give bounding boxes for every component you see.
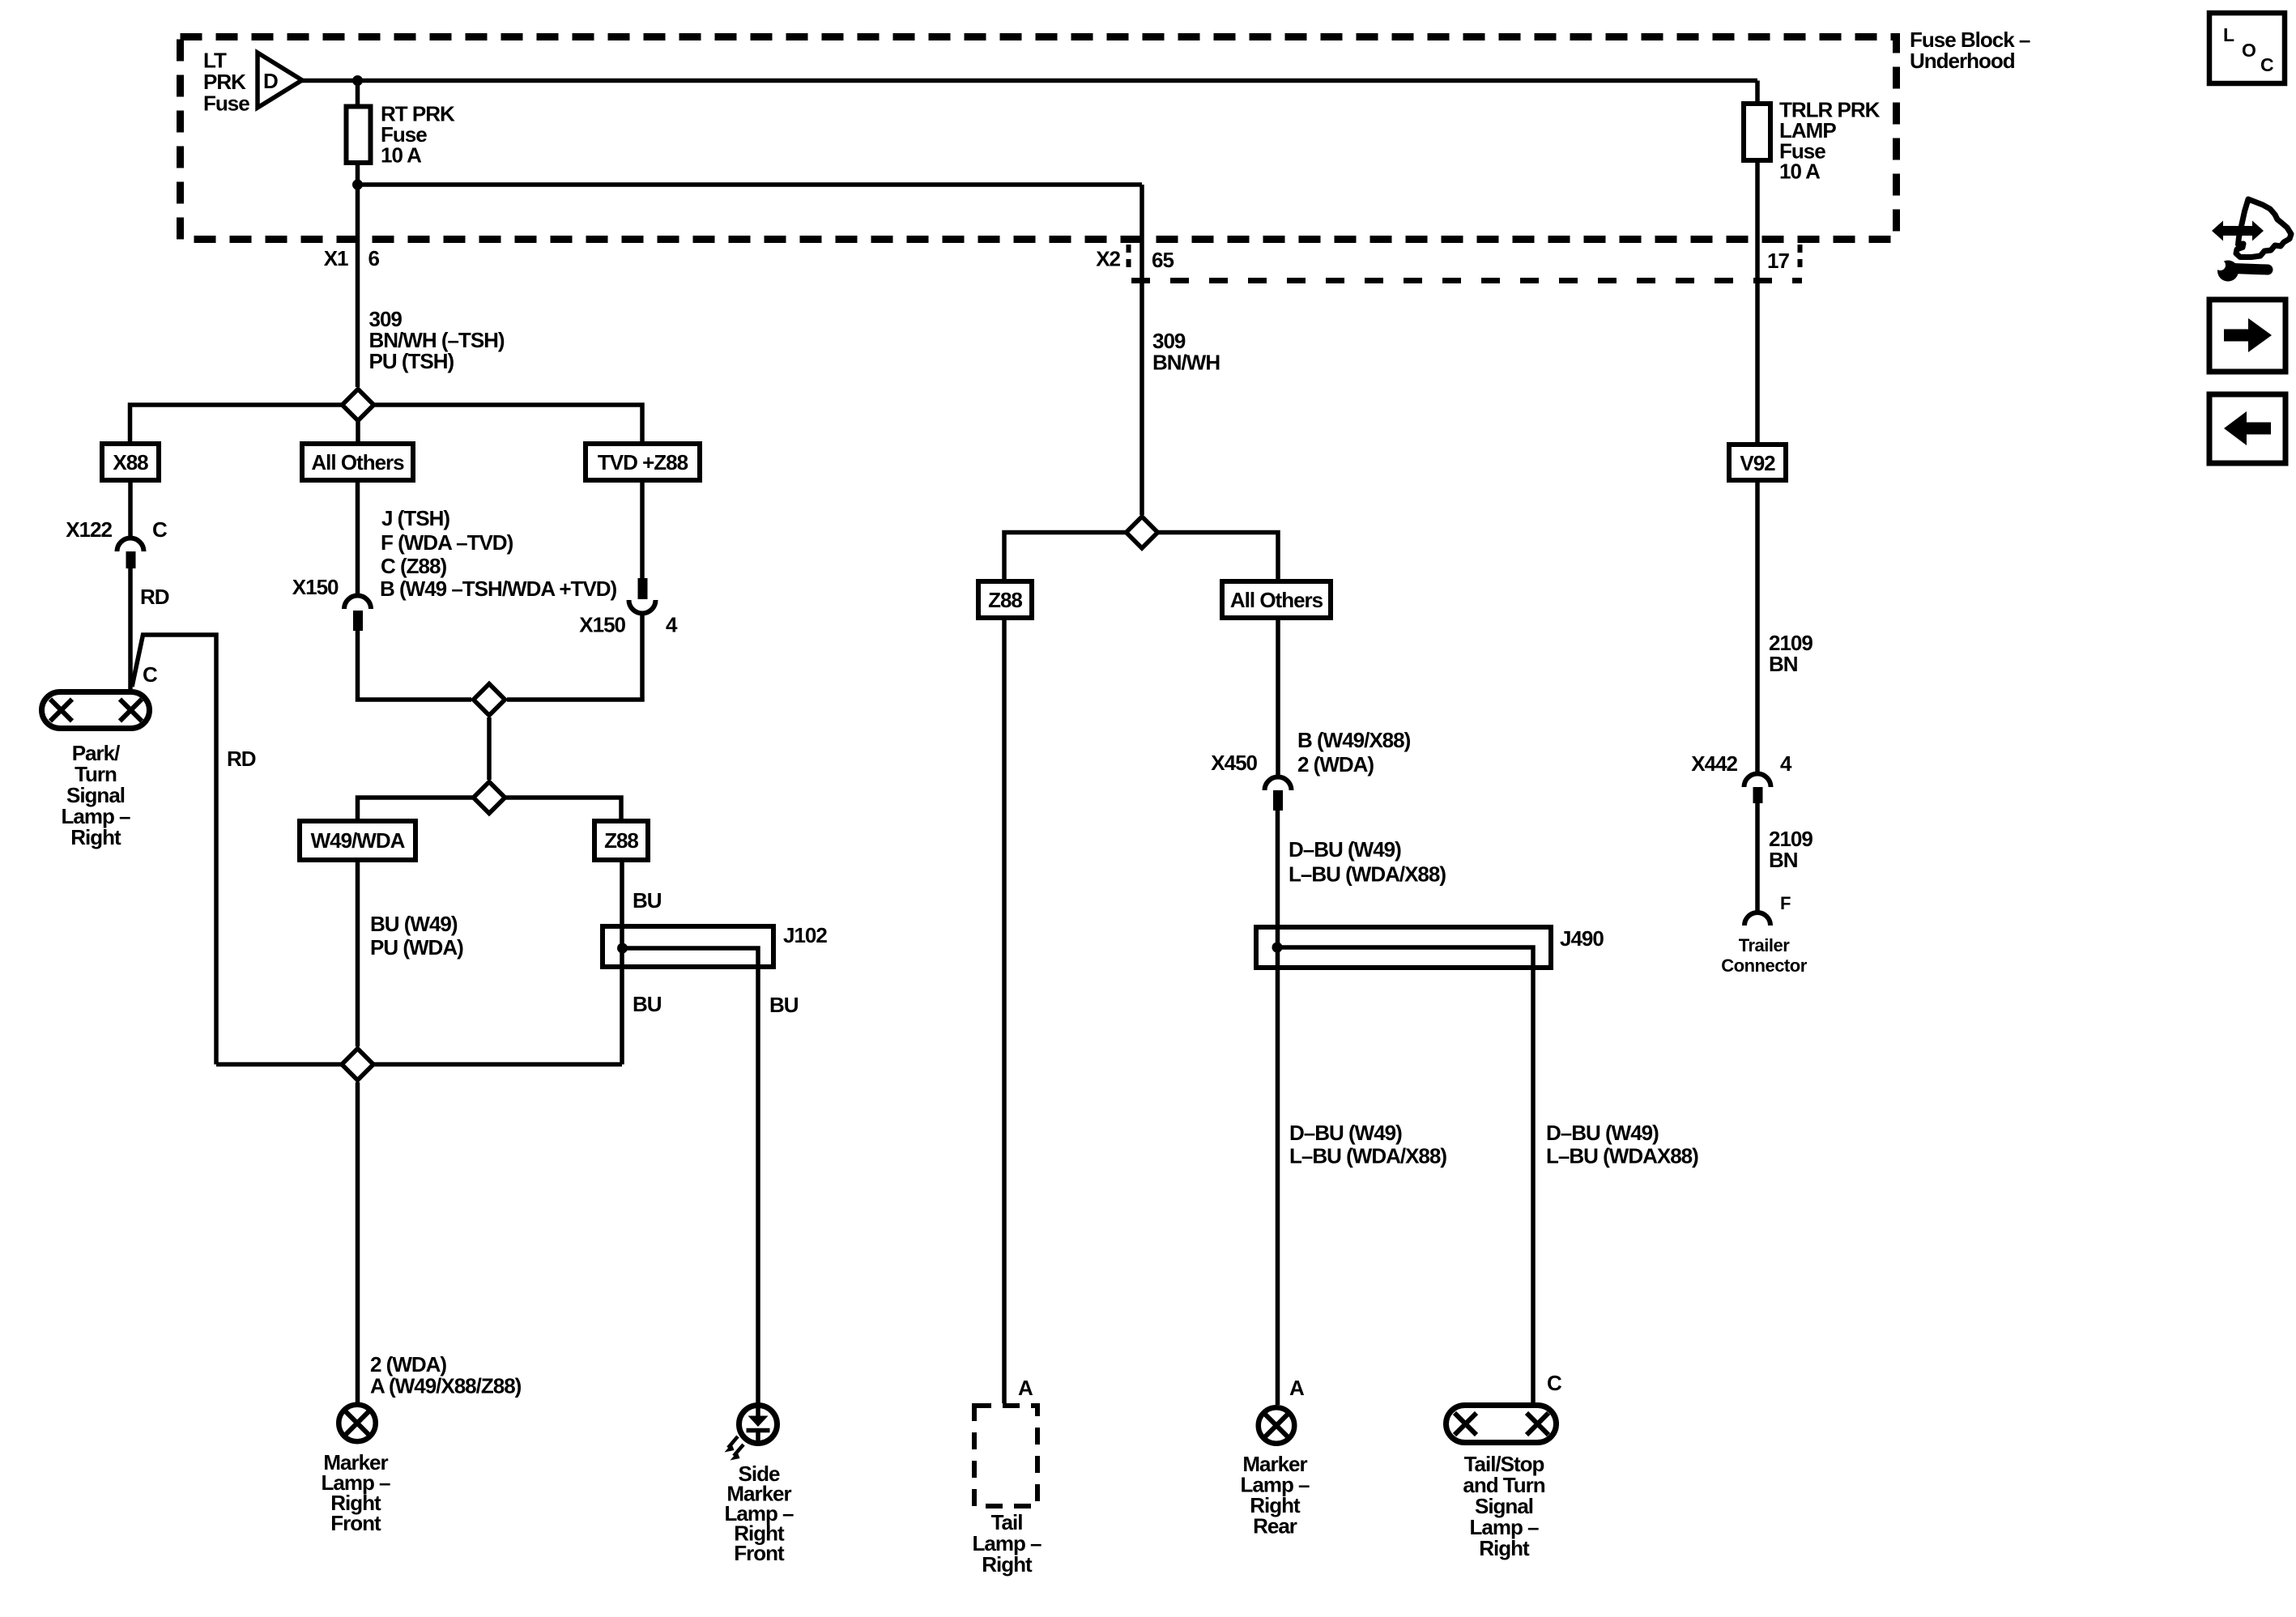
svg-text:BU: BU bbox=[633, 888, 662, 913]
svg-text:Z88: Z88 bbox=[604, 828, 638, 853]
svg-text:L–BU (WDA/X88): L–BU (WDA/X88) bbox=[1289, 862, 1446, 887]
wire bottom bus through splice diamond S4 bbox=[216, 1062, 622, 1067]
connector X2 dotted boundary line bbox=[1131, 278, 1802, 283]
svg-text:Underhood: Underhood bbox=[1910, 49, 2015, 73]
option box All Others bbox=[302, 444, 413, 480]
svg-text:A (W49/X88/Z88): A (W49/X88/Z88) bbox=[370, 1374, 522, 1398]
svg-text:2 (WDA): 2 (WDA) bbox=[370, 1352, 446, 1377]
svg-text:Trailer: Trailer bbox=[1739, 935, 1790, 955]
connector X122 arc bbox=[117, 538, 144, 552]
connector X122 pin bbox=[126, 551, 136, 568]
icon LOC box bbox=[2209, 13, 2285, 83]
svg-text:L–BU (WDAX88): L–BU (WDAX88) bbox=[1546, 1144, 1698, 1168]
svg-text:X150: X150 bbox=[292, 575, 339, 599]
lamp Side Marker Lamp Right Front (LED) bbox=[739, 1406, 777, 1444]
wire W49/WDA box down to splice diamond S4 bbox=[356, 860, 360, 1047]
option box All Others rear bbox=[1222, 581, 1331, 618]
option box V92 bbox=[1729, 445, 1786, 480]
wire top bus from LT PRK fuse output bbox=[302, 79, 1757, 83]
wire diamond S1 down to All Others box bbox=[356, 405, 360, 444]
svg-text:Z88: Z88 bbox=[988, 588, 1022, 612]
svg-text:2 (WDA): 2 (WDA) bbox=[1297, 752, 1374, 777]
node junction dot at LT PRK fuse output bbox=[352, 75, 363, 86]
connector X150 arc left bbox=[344, 596, 371, 609]
wire diamond S4 down to Marker Lamp Right Front bbox=[356, 1083, 360, 1403]
svg-text:BU (W49): BU (W49) bbox=[370, 912, 458, 936]
svg-text:LT: LT bbox=[203, 49, 227, 73]
option box Z88 bbox=[594, 821, 648, 860]
icon vehicle diagnostic (double arrow, car outline, wrench) bbox=[2236, 199, 2291, 257]
svg-text:BN: BN bbox=[1769, 652, 1798, 676]
svg-text:All Others: All Others bbox=[1230, 588, 1323, 612]
svg-text:A: A bbox=[1289, 1376, 1305, 1400]
svg-text:L: L bbox=[2223, 24, 2234, 45]
svg-text:A: A bbox=[1018, 1376, 1033, 1400]
connector X442 pin bbox=[1753, 787, 1763, 803]
svg-text:D: D bbox=[263, 69, 278, 93]
svg-text:C (Z88): C (Z88) bbox=[381, 554, 446, 578]
wire All Others box down to connector X150 bbox=[356, 480, 360, 595]
wire Z88 box down to Tail Lamp Right bbox=[1002, 618, 1007, 1403]
svg-text:BU: BU bbox=[769, 993, 799, 1017]
node junction dot in J102 bbox=[617, 943, 628, 954]
svg-text:D–BU (W49): D–BU (W49) bbox=[1289, 837, 1401, 862]
svg-text:Rear: Rear bbox=[1253, 1514, 1297, 1538]
svg-text:PRK: PRK bbox=[203, 70, 246, 94]
wire left branch down through RT PRK fuse to X1 pin 6 bbox=[356, 81, 360, 388]
connector X150 arc right bbox=[629, 600, 656, 614]
splice diamond S4 bbox=[342, 1049, 373, 1080]
svg-text:Connector: Connector bbox=[1721, 955, 1807, 976]
svg-text:BN/WH: BN/WH bbox=[1152, 351, 1220, 375]
svg-text:B (W49 –TSH/WDA +TVD): B (W49 –TSH/WDA +TVD) bbox=[380, 577, 617, 601]
option box W49/WDA bbox=[300, 821, 415, 860]
fuse LT PRK (triangle symbol D) bbox=[258, 53, 302, 108]
svg-text:65: 65 bbox=[1152, 248, 1174, 272]
wire diamond S2 to diamond S3 bbox=[487, 717, 492, 780]
splice diamond S5 bbox=[1127, 517, 1158, 548]
svg-text:10 A: 10 A bbox=[1779, 160, 1821, 184]
fuse block underhood dashed box bbox=[181, 37, 1897, 240]
connector X150 pin left bbox=[353, 611, 363, 631]
svg-text:6: 6 bbox=[368, 246, 380, 270]
icon arrow right box bbox=[2209, 300, 2285, 372]
svg-text:RD: RD bbox=[140, 585, 169, 609]
node junction dot below RT PRK fuse bbox=[352, 180, 363, 190]
svg-text:X442: X442 bbox=[1691, 751, 1737, 776]
svg-text:B (W49/X88): B (W49/X88) bbox=[1297, 728, 1411, 752]
svg-text:C: C bbox=[143, 662, 158, 687]
svg-text:O: O bbox=[2242, 40, 2256, 61]
wire J490 branch to Tail/Stop lamp bbox=[1277, 947, 1533, 1402]
wire X88 box down to connector X122 bbox=[128, 480, 133, 538]
wire X442 down to Trailer Connector bbox=[1755, 803, 1760, 913]
fuse TRLR PRK LAMP 10A bbox=[1744, 104, 1770, 160]
svg-text:17: 17 bbox=[1767, 249, 1789, 273]
svg-text:F (WDA –TVD): F (WDA –TVD) bbox=[381, 530, 513, 555]
splice pack J102 bbox=[603, 926, 773, 967]
connector X450 pin bbox=[1273, 790, 1283, 811]
connector X442 arc bbox=[1744, 774, 1771, 788]
svg-text:D–BU (W49): D–BU (W49) bbox=[1289, 1121, 1402, 1145]
wire bus of splice diamond S5 bbox=[1004, 533, 1278, 582]
wire J102 branch to Side Marker Lamp bbox=[623, 948, 759, 1405]
svg-text:X2: X2 bbox=[1096, 247, 1120, 271]
connector Trailer Connector arc bbox=[1744, 913, 1770, 926]
wire TVD +Z88 box down to connector X150 pin 4 bbox=[640, 480, 645, 580]
wire V92 down to connector X442 bbox=[1755, 480, 1760, 774]
wire All Others box down to connector X450 bbox=[1276, 618, 1280, 777]
svg-text:X1: X1 bbox=[324, 246, 348, 270]
svg-text:X450: X450 bbox=[1211, 751, 1257, 775]
svg-text:RD: RD bbox=[227, 747, 256, 771]
fuse RT PRK 10A bbox=[347, 107, 371, 164]
wire RD branch from lamp terminal C to bottom bus bbox=[132, 635, 216, 1065]
svg-text:4: 4 bbox=[666, 613, 678, 637]
svg-text:C: C bbox=[152, 517, 168, 542]
svg-text:Front: Front bbox=[734, 1541, 785, 1565]
svg-text:L–BU (WDA/X88): L–BU (WDA/X88) bbox=[1289, 1144, 1446, 1168]
splice pack J490 bbox=[1256, 927, 1551, 968]
svg-text:4: 4 bbox=[1780, 751, 1792, 776]
svg-text:PU (WDA): PU (WDA) bbox=[370, 935, 463, 960]
splice diamond S3 bbox=[474, 782, 505, 814]
svg-text:J (TSH): J (TSH) bbox=[381, 506, 449, 530]
wire right branch down to TRLR PRK fuse and V92 bbox=[1755, 81, 1760, 445]
svg-text:X150: X150 bbox=[579, 613, 625, 637]
svg-text:X122: X122 bbox=[66, 517, 112, 542]
wire X150 down and right to splice diamond S2 bbox=[358, 631, 472, 700]
svg-text:All Others: All Others bbox=[311, 450, 404, 474]
connector X150 pin right (pin 4) bbox=[638, 578, 648, 599]
lamp Marker Lamp Right Front bbox=[339, 1405, 376, 1442]
svg-text:Front: Front bbox=[330, 1511, 381, 1535]
option box TVD +Z88 bbox=[586, 444, 700, 480]
lamp Tail/Stop and Turn Signal Lamp Right (dual filament) bbox=[1446, 1406, 1557, 1443]
option box Z88 rear bbox=[978, 581, 1032, 618]
svg-text:309: 309 bbox=[1152, 329, 1186, 353]
svg-text:BU: BU bbox=[633, 992, 662, 1016]
wire X450 down through J490 to Marker Lamp Right Rear bbox=[1276, 811, 1280, 1405]
svg-text:PU (TSH): PU (TSH) bbox=[369, 349, 454, 373]
svg-text:W49/WDA: W49/WDA bbox=[311, 828, 406, 853]
wire Z88 box down through J102 to bottom bus bbox=[620, 860, 624, 1065]
svg-text:J102: J102 bbox=[783, 923, 827, 947]
svg-text:J490: J490 bbox=[1560, 926, 1604, 951]
svg-text:Right: Right bbox=[70, 825, 121, 849]
wire bus of splice diamond S1 bbox=[130, 405, 643, 444]
node junction dot in J490 bbox=[1272, 943, 1283, 953]
option box X88 bbox=[102, 444, 159, 480]
svg-text:D–BU (W49): D–BU (W49) bbox=[1546, 1121, 1659, 1145]
svg-text:BN: BN bbox=[1769, 848, 1798, 872]
lamp Marker Lamp Right Rear bbox=[1259, 1407, 1295, 1444]
svg-text:Fuse: Fuse bbox=[203, 91, 249, 116]
wire second bus below RT PRK fuse to X2 pin 65 bbox=[358, 182, 1143, 187]
svg-text:F: F bbox=[1780, 893, 1791, 913]
splice diamond S1 bbox=[343, 389, 374, 421]
svg-text:TVD +Z88: TVD +Z88 bbox=[598, 450, 688, 474]
svg-text:10 A: 10 A bbox=[381, 143, 422, 168]
connector X450 arc bbox=[1265, 777, 1292, 791]
splice diamond S2 bbox=[474, 684, 505, 716]
svg-text:V92: V92 bbox=[1740, 451, 1775, 475]
wire middle branch down from X2-65 to splice diamond S5 bbox=[1139, 185, 1144, 515]
wire X150-4 down and left to splice diamond S2 bbox=[507, 614, 642, 700]
svg-text:C: C bbox=[1547, 1371, 1562, 1395]
wire bus of splice diamond S3 bbox=[358, 798, 622, 821]
svg-text:C: C bbox=[2260, 54, 2274, 75]
wire RD from X122 to lamp terminal C bbox=[128, 568, 133, 689]
lamp Park/Turn Signal Lamp Right (dual filament) bbox=[42, 692, 150, 729]
LED emission arrows bbox=[728, 1436, 738, 1448]
svg-text:Right: Right bbox=[982, 1552, 1033, 1577]
icon arrow left box bbox=[2209, 394, 2285, 463]
lamp Tail Lamp Right dashed outline bbox=[974, 1406, 1037, 1506]
svg-text:Right: Right bbox=[1479, 1536, 1530, 1560]
svg-text:X88: X88 bbox=[113, 450, 148, 474]
